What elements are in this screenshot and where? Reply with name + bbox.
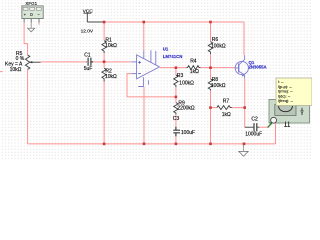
function generator XFG1 xyxy=(22,1,43,23)
svg-text:C2: C2 xyxy=(251,116,258,122)
node top rail R1 xyxy=(103,21,106,24)
resistor R4 xyxy=(186,59,200,75)
junction node dots xyxy=(103,21,246,146)
capacitor C1 xyxy=(84,53,94,72)
op-amp U1 LM741CN xyxy=(131,47,182,87)
svg-text:10kΩ: 10kΩ xyxy=(105,74,117,80)
wire R4 to node C xyxy=(201,67,211,69)
resistor R2 xyxy=(102,62,117,144)
svg-text:R8: R8 xyxy=(212,77,219,83)
svg-text:Q1: Q1 xyxy=(249,60,255,65)
svg-text:100uF: 100uF xyxy=(181,130,195,136)
svg-text:10kΩ: 10kΩ xyxy=(105,43,117,49)
wire C1 right to node A xyxy=(93,61,104,63)
probe connection circle xyxy=(271,117,277,123)
svg-text:I(rms): --: I(rms): -- xyxy=(278,89,294,94)
node rail C3 xyxy=(175,143,178,146)
wire pot bottom to ground rail xyxy=(27,70,29,144)
resistor R9 xyxy=(174,97,195,127)
node D R8/R7 xyxy=(209,106,212,109)
wire node C to Q1 base xyxy=(211,67,236,69)
wire inverting input feedback to node B xyxy=(127,74,176,97)
svg-text:VCC: VCC xyxy=(83,8,94,14)
svg-text:1000uF: 1000uF xyxy=(245,131,262,137)
node rail pin4 xyxy=(143,143,146,146)
svg-text:100kΩ: 100kΩ xyxy=(211,83,226,89)
svg-text:U1: U1 xyxy=(163,47,169,52)
node rail R2 xyxy=(103,143,106,146)
wire op-amp pin 4 down to ground rail xyxy=(143,87,145,144)
resistor R7 xyxy=(211,98,245,118)
svg-text:I(dc): --: I(dc): -- xyxy=(278,93,291,98)
probe tip arrow xyxy=(268,123,272,127)
probe readout yellow box xyxy=(276,78,312,106)
VCC power symbol xyxy=(81,8,94,34)
svg-text:R1: R1 xyxy=(105,37,112,43)
node C R4/R6/R8 xyxy=(209,66,212,69)
node top rail V+ xyxy=(143,21,146,24)
wire top rail black segment from VCC xyxy=(87,21,104,23)
wire top rail red xyxy=(104,21,244,23)
svg-text:5uF: 5uF xyxy=(84,66,93,72)
svg-text:R4: R4 xyxy=(190,59,197,65)
svg-text:I: --: I: -- xyxy=(278,79,285,84)
svg-text:100kΩ: 100kΩ xyxy=(179,81,194,87)
wire ground rail xyxy=(28,143,276,145)
svg-text:2200kΩ: 2200kΩ xyxy=(177,105,195,111)
svg-text:XFG1: XFG1 xyxy=(25,1,37,6)
svg-text:1kΩ: 1kΩ xyxy=(190,69,199,75)
wire stub at left edge xyxy=(0,71,3,73)
node top rail R6 xyxy=(209,21,212,24)
svg-text:R3: R3 xyxy=(177,73,184,79)
measurement probe instrument box xyxy=(269,100,310,127)
svg-text:1kΩ: 1kΩ xyxy=(222,112,231,118)
wire op-amp output xyxy=(160,67,187,69)
wire Q1 emitter down xyxy=(244,78,246,127)
node emitter R7 xyxy=(243,106,246,109)
resistor R3 xyxy=(174,68,194,97)
wire XFG1 minus pin stub xyxy=(38,23,40,25)
node rail R7 column xyxy=(209,143,212,146)
ground under XFG1 common pin xyxy=(28,23,35,32)
wire node A to op-amp non-inverting input xyxy=(104,61,131,63)
svg-text:100kΩ: 100kΩ xyxy=(211,43,226,49)
node A C1/R1/R2 xyxy=(103,61,106,64)
ground symbol at rail xyxy=(239,144,248,156)
resistor R8 xyxy=(208,68,225,108)
svg-text:R6: R6 xyxy=(212,37,219,43)
wire collector drop from top rail xyxy=(243,22,245,55)
wire XFG1 plus pin to potentiometer xyxy=(24,23,28,55)
svg-text:R2: R2 xyxy=(105,68,112,74)
svg-text:R7: R7 xyxy=(223,98,230,104)
svg-text:I(p-p): --: I(p-p): -- xyxy=(278,84,293,89)
wire probe ground drop xyxy=(275,123,277,144)
potentiometer R5 xyxy=(5,51,41,73)
svg-text:2N3055A: 2N3055A xyxy=(249,65,267,70)
svg-text:C3: C3 xyxy=(173,116,180,122)
wire V+ supply drop to op-amp pin 7 xyxy=(143,22,145,50)
svg-text:10kΩ: 10kΩ xyxy=(10,67,22,73)
wire node D down to ground rail xyxy=(210,108,212,144)
svg-text:LM741CN: LM741CN xyxy=(163,54,183,59)
node rail ground xyxy=(243,143,246,146)
capacitor C3 xyxy=(173,116,195,144)
resistor R6 xyxy=(208,22,226,68)
node B feedback R3/R9 xyxy=(175,96,178,99)
node output R3 tap xyxy=(175,66,178,69)
wire pot wiper to C1 xyxy=(41,61,87,63)
svg-text:I(freq): --: I(freq): -- xyxy=(278,98,294,103)
capacitor C2 xyxy=(245,116,262,137)
svg-text:12.0V: 12.0V xyxy=(81,28,94,34)
transistor Q1 2N3055A xyxy=(235,55,266,78)
wire C2 to probe tip xyxy=(259,126,267,128)
resistor R1 xyxy=(102,22,117,62)
